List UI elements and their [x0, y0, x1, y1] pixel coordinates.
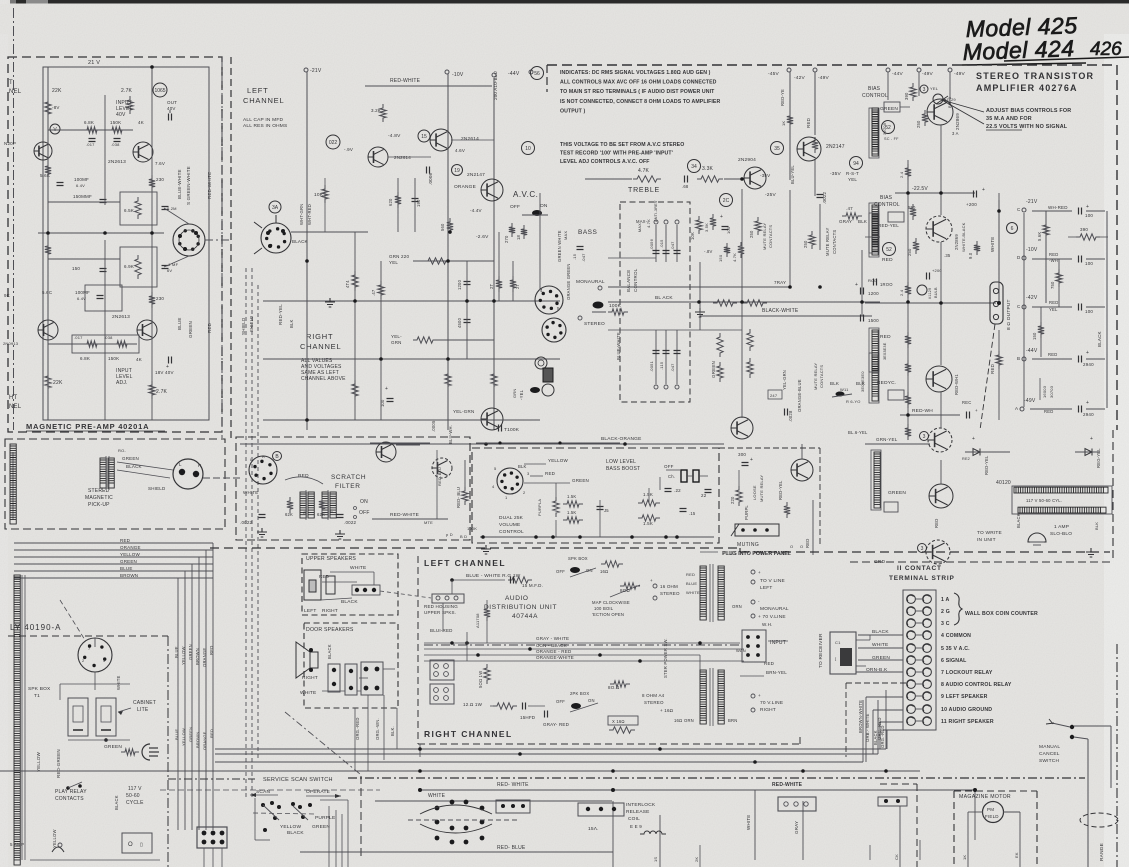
svg-text:UPPER SPKS.: UPPER SPKS.: [424, 610, 456, 615]
svg-text:40744A: 40744A: [512, 613, 538, 620]
svg-text:BLK.: BLK.: [390, 726, 395, 736]
svg-text:YEL-GRN: YEL-GRN: [782, 370, 787, 390]
scratch socket: [249, 456, 277, 484]
svg-text:YELLOW: YELLOW: [181, 646, 186, 665]
svg-text:COIL: COIL: [628, 816, 640, 822]
dash-dot wire to socket: [205, 239, 232, 241]
svg-text:YELLOW: YELLOW: [36, 751, 41, 772]
capacitor 1500 amp: [861, 315, 864, 322]
svg-text:OFF: OFF: [556, 569, 565, 574]
svg-text:WHT-GRN: WHT-GRN: [299, 204, 304, 225]
color wire bundle vertical: [212, 543, 214, 830]
distribution dashed box top: [210, 547, 740, 549]
svg-text:RED HOUSING: RED HOUSING: [424, 604, 458, 609]
svg-text:GREEN: GREEN: [120, 559, 137, 564]
svg-text:.0008: .0008: [428, 172, 433, 185]
svg-text:RED: RED: [545, 471, 556, 476]
svg-text:ADJ.: ADJ.: [116, 380, 128, 386]
svg-text:TERMINAL STRIP: TERMINAL STRIP: [889, 575, 955, 582]
resistor 6.5K box: [120, 192, 157, 225]
svg-text:MUTE RELAY: MUTE RELAY: [759, 475, 764, 502]
svg-text:10K: 10K: [314, 192, 324, 198]
svg-text:+: +: [982, 187, 985, 193]
circled 34: [688, 160, 701, 173]
svg-text:YEL-GRN: YEL-GRN: [453, 409, 474, 414]
svg-text:RIGHT: RIGHT: [306, 332, 333, 341]
svg-text:2N2613: 2N2613: [108, 159, 126, 165]
svg-text:X 16Ω: X 16Ω: [612, 719, 625, 724]
svg-text:N20P: N20P: [4, 141, 16, 146]
svg-text:O: O: [303, 510, 306, 515]
supply right dash-dot: [167, 636, 169, 867]
svg-text:WHITE: WHITE: [746, 815, 751, 831]
svg-text:21 V: 21 V: [88, 60, 100, 66]
capacitor 2940 d: [1079, 356, 1082, 363]
svg-text:+: +: [972, 436, 975, 442]
svg-text:.115: .115: [659, 361, 664, 370]
svg-text:INTERLOCK: INTERLOCK: [626, 802, 656, 808]
svg-text:5.6C: 5.6C: [42, 290, 53, 295]
motor circle: [983, 802, 1004, 823]
amp dashed border right: [1116, 65, 1118, 430]
svg-text:'ECTION OPEN: 'ECTION OPEN: [592, 612, 624, 617]
transistor Q3 lower-left: [38, 320, 58, 340]
cap 100 treble: [722, 227, 729, 230]
svg-text:.017: .017: [74, 335, 83, 340]
resistor 1K: [787, 112, 793, 128]
svg-text:RANGE: RANGE: [1099, 843, 1105, 861]
dist transformer lower left winding: [700, 670, 706, 724]
svg-text:100: 100: [1085, 261, 1093, 266]
svg-text:10: 10: [525, 146, 531, 152]
svg-text:3: 3: [923, 87, 926, 93]
svg-text:DOOR SPEAKERS: DOOR SPEAKERS: [306, 627, 354, 633]
coil left column top: [872, 108, 878, 154]
svg-text:GRN-YEL: GRN-YEL: [876, 437, 898, 442]
balance switch blob: [593, 302, 604, 309]
svg-text:+: +: [385, 386, 388, 392]
bulb circle b: [542, 384, 554, 396]
svg-text:ON: ON: [360, 499, 368, 505]
svg-text:BLACK: BLACK: [872, 629, 889, 635]
terminal MONAURAL: [751, 600, 755, 604]
svg-text:MAX: MAX: [638, 223, 642, 232]
resistor chain lower: [905, 332, 911, 348]
supply top dashed: [8, 635, 168, 637]
tube socket preamp: [173, 224, 205, 256]
svg-text:WH-RED: WH-RED: [1048, 205, 1068, 210]
bulb 1129 mid: [917, 285, 927, 295]
svg-text:CANCEL: CANCEL: [1039, 751, 1060, 757]
svg-text:PURPLA: PURPLA: [537, 499, 542, 516]
svg-text:NEL: NEL: [9, 89, 22, 95]
svg-text:CONTROL: CONTROL: [862, 93, 888, 99]
scratch transformer b: [322, 492, 328, 518]
svg-text:22K: 22K: [52, 88, 62, 94]
svg-text:-21V: -21V: [1026, 199, 1038, 205]
svg-text:.47: .47: [846, 206, 853, 211]
ground treble: [695, 308, 705, 317]
resistor 2.7K upper: [127, 96, 133, 114]
svg-text:15: 15: [421, 134, 427, 140]
svg-text:RED: RED: [120, 538, 131, 543]
svg-text:RED: RED: [805, 539, 810, 548]
svg-text:TEST RECORD '100' WITH PRE-AM: TEST RECORD '100' WITH PRE-AMP 'INPUT': [560, 151, 673, 157]
wire lower-left rail: [47, 246, 49, 320]
svg-text:2T: 2T: [515, 283, 520, 289]
svg-text:BIAS: BIAS: [868, 86, 881, 92]
svg-text:-49V: -49V: [922, 71, 934, 77]
amp dashed border top: [547, 64, 1117, 66]
right margin light strip: [1104, 0, 1129, 867]
svg-text:ON: ON: [588, 698, 595, 703]
svg-text:R 6-YO: R 6-YO: [846, 399, 861, 404]
circled 2C: [720, 194, 733, 207]
svg-text:-42V: -42V: [1026, 295, 1038, 301]
capacitor 190: [412, 199, 419, 202]
svg-text:BRN-YEL: BRN-YEL: [766, 670, 787, 675]
input connector dist: [742, 630, 766, 662]
svg-text:STERED: STERED: [88, 488, 110, 494]
svg-text:4K: 4K: [136, 357, 142, 362]
svg-text:ORG.-WN.: ORG.-WN.: [375, 718, 380, 740]
wire center row420: [263, 419, 540, 421]
svg-text:GREEN: GREEN: [104, 744, 122, 750]
svg-text:1065: 1065: [154, 88, 165, 94]
svg-text:MUTING: MUTING: [737, 542, 759, 548]
svg-text:15HFD: 15HFD: [520, 715, 536, 720]
wire -21V col: [1023, 213, 1025, 407]
pickup coil: [100, 458, 106, 488]
svg-text:STEREO: STEREO: [644, 700, 664, 705]
scratch dashed box: [236, 437, 470, 540]
svg-text:35: 35: [774, 146, 780, 152]
svg-text:+: +: [758, 570, 761, 575]
svg-text:7RAY: 7RAY: [774, 280, 786, 285]
supply left coil strip: [14, 575, 20, 865]
dashed diag power: [980, 324, 995, 430]
svg-text:NEL: NEL: [9, 404, 22, 410]
svg-text:.038: .038: [111, 142, 120, 147]
svg-text:MAX: MAX: [563, 231, 568, 240]
pre-amp inner box: [43, 67, 209, 420]
svg-text:2N2613: 2N2613: [112, 314, 130, 320]
svg-text:W11: W11: [840, 387, 849, 392]
svg-text:WHT-RED: WHT-RED: [307, 204, 312, 225]
svg-text:150: 150: [718, 254, 723, 262]
resistor lower 3: [491, 370, 497, 390]
svg-text:RED-YEL: RED-YEL: [984, 455, 989, 475]
svg-text:SLO-BLO: SLO-BLO: [1050, 531, 1072, 537]
svg-text:WHITE: WHITE: [350, 565, 366, 571]
bundle wires below connector: [203, 848, 205, 867]
cap .0051 lower: [655, 330, 657, 384]
lamp symbol: [1028, 533, 1046, 542]
svg-text:YELLOW: YELLOW: [548, 458, 569, 463]
svg-text:4.7K: 4.7K: [732, 253, 737, 262]
svg-text:CYCLE: CYCLE: [126, 800, 144, 806]
scratch top wires: [370, 442, 430, 444]
svg-text:BLACK: BLACK: [1016, 513, 1021, 528]
svg-text:100MF: 100MF: [75, 290, 90, 295]
svg-text:YEL-: YEL-: [391, 334, 402, 339]
svg-text:18V 40V: 18V 40V: [155, 370, 174, 375]
svg-text:2.4: 2.4: [899, 289, 904, 296]
svg-text:RED: RED: [934, 519, 939, 528]
long wire y359: [263, 358, 560, 360]
svg-text:15Λ.: 15Λ.: [588, 826, 599, 832]
transistor Q1 2N2613 upper-left: [34, 142, 52, 160]
cap .047 treble: [676, 225, 678, 262]
svg-text:-8V: -8V: [52, 105, 60, 110]
junction dots amp right: [906, 191, 910, 195]
wire amp row330b: [700, 329, 742, 331]
svg-text:RED-WHITE: RED-WHITE: [390, 512, 419, 518]
svg-text:11 RIGHT SPEAKER: 11 RIGHT SPEAKER: [941, 719, 994, 725]
svg-text:8O.Ω: 8O.Ω: [608, 685, 620, 690]
transistor bottom center: [731, 417, 753, 439]
svg-text:CK: CK: [894, 854, 899, 860]
door speaker cone: [296, 642, 310, 678]
wire amp v999: [998, 193, 1000, 303]
svg-text:RIGHT: RIGHT: [302, 675, 318, 681]
svg-text:MAGNETIC: MAGNETIC: [85, 495, 113, 501]
supply dash diag: [60, 600, 85, 640]
circled 6: [1007, 223, 1018, 234]
svg-text:RED: RED: [764, 661, 775, 666]
resistor 230 lower: [149, 292, 155, 308]
dist connector 2x2 b: [430, 684, 454, 704]
svg-text:16Ω: 16Ω: [600, 569, 608, 574]
svg-text:CONTACTS: CONTACTS: [832, 230, 837, 254]
svg-text:GREEN: GREEN: [711, 361, 716, 378]
svg-text:T100K: T100K: [504, 427, 520, 433]
wall box brace: [954, 593, 962, 625]
svg-text:230: 230: [156, 296, 164, 301]
svg-text:C: C: [1017, 207, 1021, 212]
svg-text:1.5K: 1.5K: [567, 494, 576, 499]
capacitor 100 a: [1079, 208, 1082, 215]
terminal bundle top wire: [883, 729, 903, 731]
svg-text:GRN: GRN: [512, 389, 517, 399]
circled 15a: [418, 130, 430, 142]
svg-text:62K: 62K: [285, 512, 293, 517]
output jack 8ohm: [990, 282, 1003, 324]
capacitor 1200 mid: [464, 282, 471, 285]
junction dots center: [305, 259, 309, 263]
svg-text:GRN: GRN: [391, 340, 402, 345]
svg-text:WHITE: WHITE: [872, 642, 888, 648]
svg-text:C: C: [1017, 304, 1021, 309]
motor wires: [967, 812, 969, 867]
svg-text:BASS: BASS: [578, 229, 598, 236]
upper dash link: [380, 591, 431, 598]
svg-text:.047: .047: [581, 253, 586, 262]
door speakers dashed box: [304, 623, 398, 708]
svg-text:-2.6V: -2.6V: [476, 234, 489, 240]
terminal 70V LINE RIGHT: [751, 694, 755, 698]
cap .015 treble: [665, 225, 667, 262]
svg-text:GREEN: GREEN: [572, 478, 589, 483]
svg-text:1 A: 1 A: [941, 597, 950, 603]
cap symbols lower: [653, 351, 660, 354]
socket right cluster a: [535, 286, 563, 314]
svg-text:MUTE RELAY: MUTE RELAY: [762, 223, 767, 250]
svg-text:E E 9: E E 9: [630, 824, 642, 829]
svg-text:+: +: [975, 408, 978, 413]
svg-text:6.9K: 6.9K: [124, 264, 134, 269]
svg-text:SC - FF: SC - FF: [884, 137, 899, 141]
svg-text:190: 190: [416, 199, 421, 207]
svg-text:HT: HT: [9, 395, 18, 401]
svg-text:BIAS: BIAS: [880, 195, 893, 201]
wires receiver to strip: [856, 639, 870, 641]
svg-text:CONTROL: CONTROL: [499, 529, 524, 535]
wire center row232b: [291, 231, 368, 233]
transistor Q2 2N2613 upper-right: [133, 142, 153, 162]
svg-text:4500: 4500: [457, 317, 462, 328]
svg-text:MUTE RELAY: MUTE RELAY: [813, 363, 818, 390]
door connector b: [345, 664, 357, 695]
svg-text:RED-YE: RED-YE: [780, 89, 785, 106]
svg-text:CHANNEL ABOVE: CHANNEL ABOVE: [301, 376, 346, 382]
svg-text:RED: RED: [806, 117, 811, 128]
resistor GREEN chain: [717, 333, 723, 357]
svg-text:390: 390: [1080, 227, 1088, 232]
svg-text:200 A10-BLU: 200 A10-BLU: [493, 71, 498, 100]
svg-text:35 M.A AND FOR: 35 M.A AND FOR: [986, 116, 1032, 122]
cap .047 lower: [676, 330, 678, 384]
svg-text:22K: 22K: [53, 380, 63, 386]
svg-text:16003: 16003: [1042, 385, 1047, 398]
svg-text:RE2: RE2: [962, 457, 970, 461]
terminal TO V LINE LEFT: [751, 570, 755, 574]
bottom small marks: [869, 845, 871, 860]
wire dist left drops: [451, 580, 453, 594]
svg-text:-10V: -10V: [1026, 247, 1038, 253]
svg-text:6.8K: 6.8K: [84, 120, 94, 125]
svg-text:70 V.LINE: 70 V.LINE: [760, 700, 783, 706]
svg-text:4 COMMON: 4 COMMON: [941, 633, 971, 639]
svg-text:STER POWER SW.: STER POWER SW.: [663, 638, 668, 678]
resistor 6.8K: [83, 127, 101, 133]
treble dashed box: [620, 202, 690, 402]
power dash-dot wire: [424, 644, 740, 646]
svg-text:1.5K: 1.5K: [643, 521, 653, 526]
svg-text:LEFT: LEFT: [760, 585, 773, 591]
svg-text:6 SIGNAL: 6 SIGNAL: [941, 658, 967, 664]
svg-text:OFF: OFF: [556, 699, 565, 704]
svg-text:OFF: OFF: [359, 510, 370, 516]
transistor scratch a: [376, 442, 396, 462]
svg-text:-21V: -21V: [310, 68, 322, 74]
svg-text:.047: .047: [670, 363, 675, 372]
svg-text:RED: RED: [686, 572, 695, 577]
dist transformer upper left winding: [700, 566, 706, 620]
svg-text:ANTI-3REV: ANTI-3REV: [654, 200, 658, 222]
cap .0056 treble: [655, 225, 657, 262]
svg-text:RED: RED: [319, 574, 330, 579]
svg-text:220: 220: [730, 496, 735, 504]
wire long y771: [0, 770, 920, 772]
shield dashed lines: [245, 268, 247, 800]
door wires right: [383, 668, 395, 670]
svg-text:GREEN: GREEN: [188, 644, 193, 660]
volume-boost dashed box: [472, 448, 719, 543]
wire preamp left rail: [47, 67, 49, 420]
wire amp v862: [861, 250, 863, 316]
svg-text:6: 6: [1011, 226, 1014, 232]
svg-text:ORN: ORN: [732, 604, 742, 609]
dist transformer upper right winding: [718, 566, 724, 620]
svg-text:15 M.F.D.: 15 M.F.D.: [522, 583, 543, 588]
svg-text:1 AMP: 1 AMP: [1054, 524, 1069, 530]
svg-text:2.4: 2.4: [899, 171, 904, 178]
bottom left small dashed box: [916, 784, 918, 867]
svg-text:-22.5V: -22.5V: [912, 186, 928, 192]
boost switch wires: [666, 469, 680, 471]
upper speaker left: [304, 570, 321, 600]
svg-text:A.V.C.: A.V.C.: [513, 190, 538, 199]
wire center v540: [539, 193, 541, 290]
svg-text:BROWN: BROWN: [195, 732, 200, 748]
svg-text:ORB.- WHITE: ORB.- WHITE: [865, 714, 870, 743]
wire amp v815b: [814, 160, 816, 196]
svg-text:ORANGE GREEN: ORANGE GREEN: [566, 263, 571, 300]
svg-text:TREBLE: TREBLE: [628, 187, 660, 194]
svg-text:-25V: -25V: [765, 192, 777, 198]
svg-text:RED: RED: [1044, 409, 1053, 414]
svg-text:.047: .047: [670, 241, 675, 250]
svg-text:RED- BLUE: RED- BLUE: [497, 845, 526, 851]
svg-text:-.8V: -.8V: [704, 249, 712, 254]
svg-text:LITE: LITE: [137, 707, 149, 713]
switch blob center: [530, 387, 540, 393]
svg-text:.0056: .0056: [649, 238, 654, 250]
top margin light band: [0, 4, 1129, 34]
svg-text:.15: .15: [689, 511, 696, 516]
svg-text:RED- WHITE: RED- WHITE: [497, 782, 529, 788]
capacitor -200 mid: [927, 273, 930, 280]
magazine motor dashed box: [954, 790, 1037, 792]
svg-text:ADJUST BIAS CONTROLS FOR: ADJUST BIAS CONTROLS FOR: [986, 108, 1071, 114]
svg-text:RED-WHITE: RED-WHITE: [390, 78, 421, 84]
bulb 1129 top: [933, 94, 943, 104]
door wires down: [354, 708, 356, 771]
svg-text:2N2614: 2N2614: [394, 155, 411, 160]
svg-text:BROWN: BROWN: [195, 648, 200, 665]
wire mid rail: [38, 232, 164, 234]
svg-text:RED-WHITE: RED-WHITE: [207, 172, 212, 199]
svg-text:+200: +200: [966, 202, 977, 207]
svg-text:S GREEN-WHITE: S GREEN-WHITE: [186, 166, 191, 205]
svg-text:GRAY: GRAY: [794, 821, 799, 834]
resistor mid chain: [747, 329, 753, 351]
svg-text:+: +: [1086, 350, 1089, 356]
resistor lower 2: [445, 370, 451, 390]
circled 52 mid: [883, 243, 896, 256]
left dash-dot margin line: [13, 8, 15, 430]
upper terminal dots: [352, 585, 380, 595]
svg-text:STEREO: STEREO: [584, 321, 605, 327]
svg-text:REG-YEL: REG-YEL: [1096, 448, 1101, 468]
svg-text:LEVEL ADJ CONTROLS A.V.C. O: LEVEL ADJ CONTROLS A.V.C. OFF: [560, 159, 650, 165]
svg-text:GREEN: GREEN: [188, 727, 193, 742]
transistor 2N2147 avc: [481, 179, 503, 201]
svg-text:IN UNIT: IN UNIT: [977, 537, 996, 543]
ground center: [325, 298, 335, 307]
svg-text:117 V 50-60 CYL.: 117 V 50-60 CYL.: [1026, 498, 1062, 503]
